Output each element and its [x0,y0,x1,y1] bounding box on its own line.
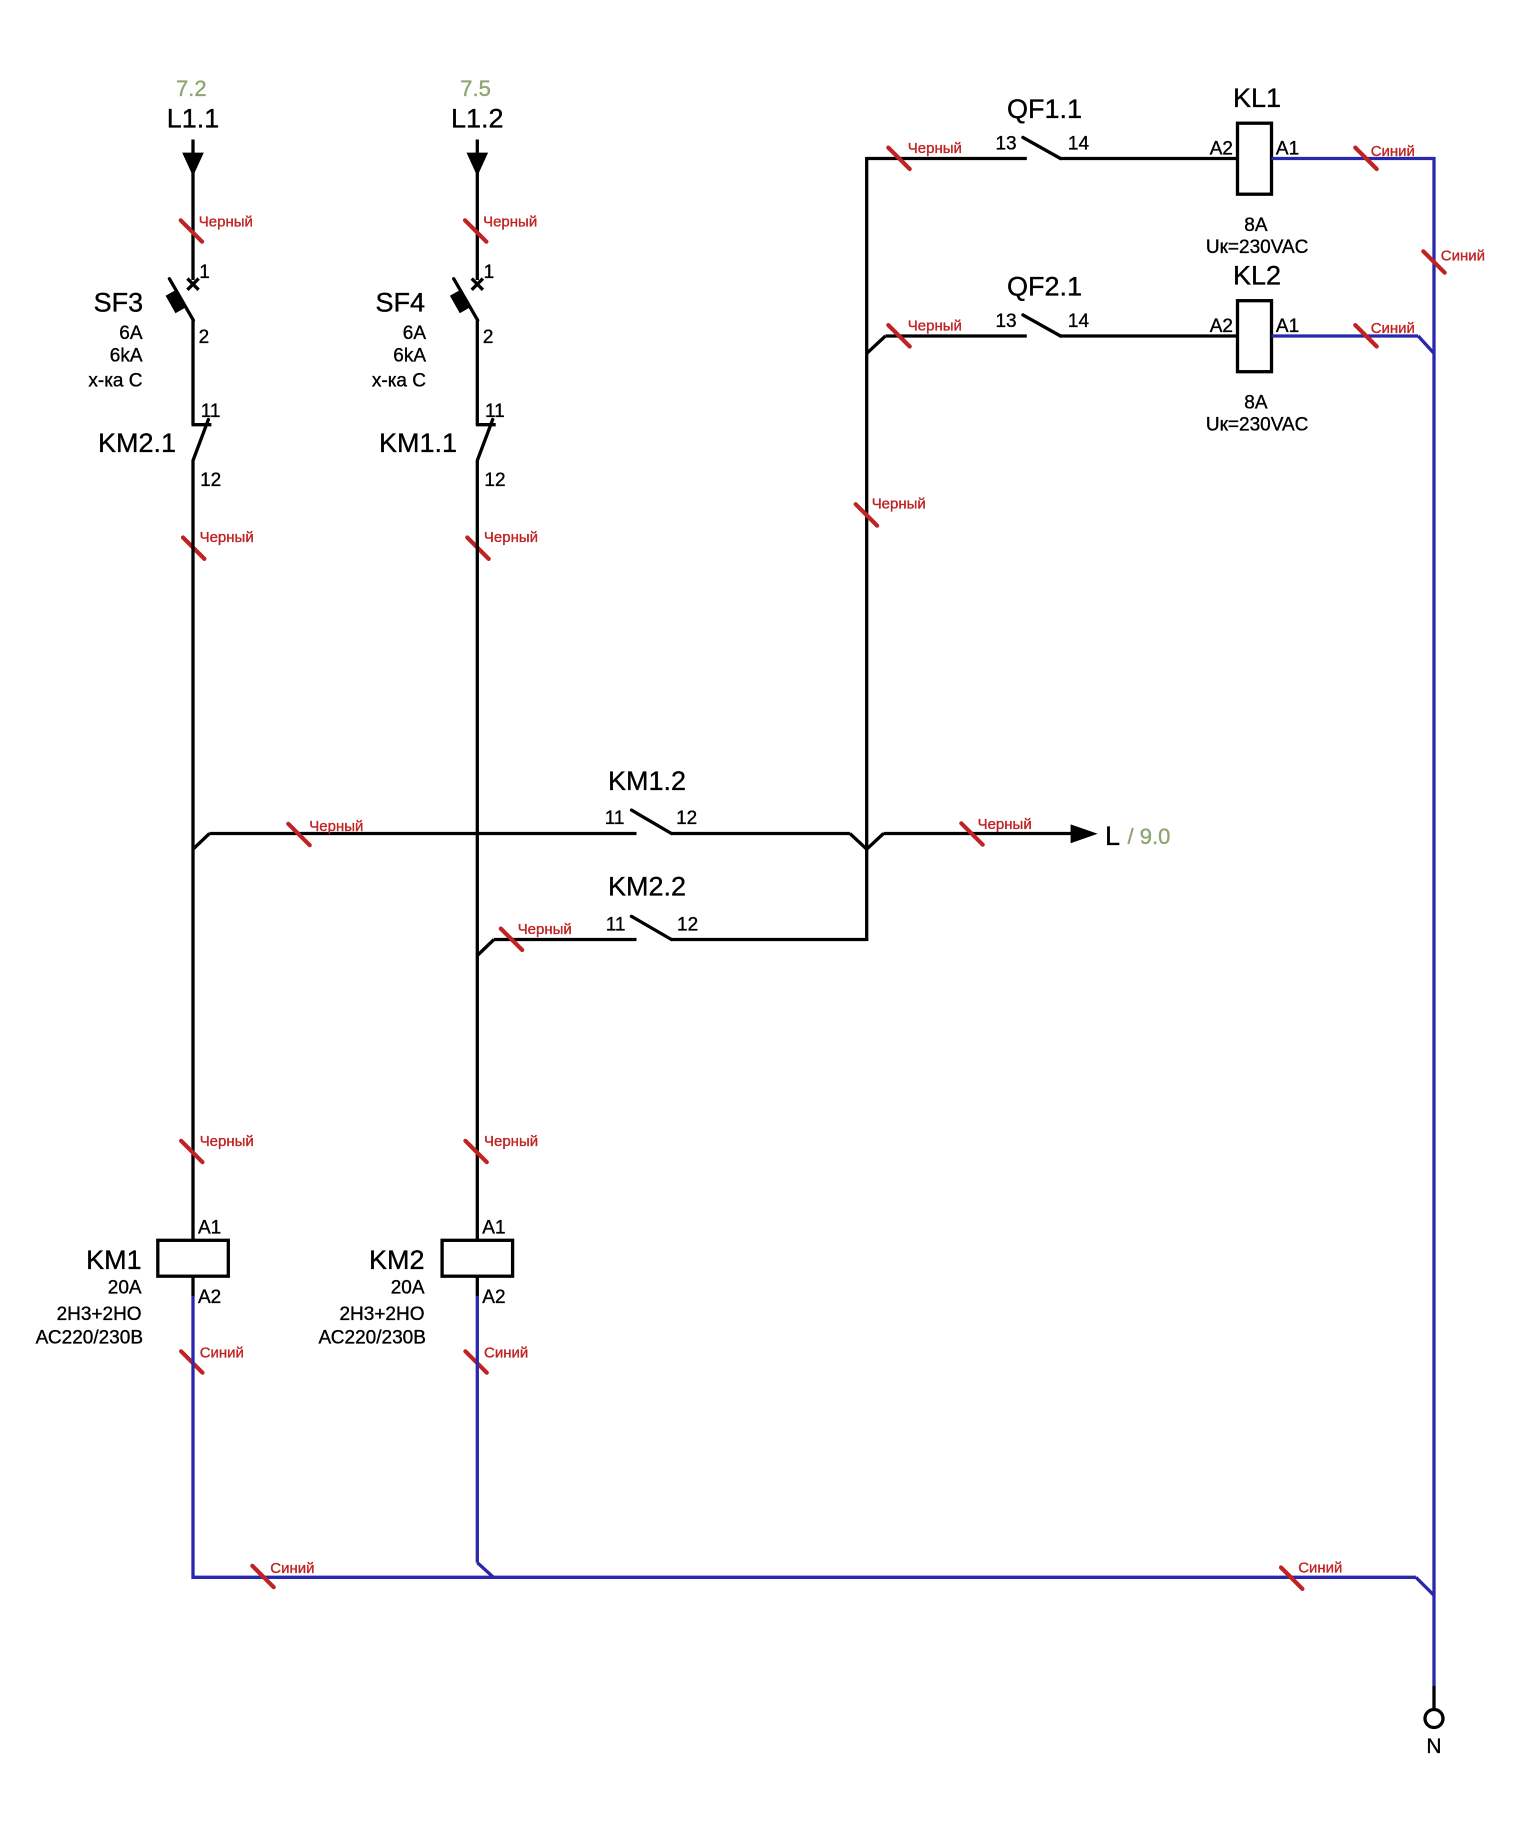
NC contact KM2.1 [192,420,212,461]
wire colour label Синий on right bus [1423,248,1485,273]
pin 12 of KM1.2 [676,808,697,829]
wire breaker to NC contact [476,320,479,424]
wire colour label Синий [181,1345,244,1373]
svg-text:KL2: KL2 [1233,261,1281,291]
svg-text:12: 12 [676,808,697,829]
svg-text:6kA: 6kA [110,346,143,367]
svg-text:11: 11 [201,401,221,422]
svg-text:A2: A2 [1210,139,1233,160]
contactor coil KM1 [158,1240,229,1276]
pin A1 of KM1 [198,1218,221,1239]
blue bus jog into right riser [1416,1577,1434,1595]
NO contact QF2.1 [1023,315,1061,336]
svg-text:/ 9.0: / 9.0 [1128,824,1171,849]
wire colour label Черный on riser [856,496,926,526]
pin 2 of SF3 [199,327,210,348]
value 20A of KM1 [108,1278,142,1299]
wire jog KM1.2 row into riser junction [850,834,867,850]
svg-text:8A: 8A [1244,393,1268,414]
svg-text:KM1.1: KM1.1 [379,428,457,458]
svg-text:A1: A1 [1276,139,1299,160]
black stub to N terminal [1432,1686,1435,1709]
svg-text:7.2: 7.2 [176,76,207,101]
svg-text:L1.2: L1.2 [451,104,504,134]
svg-text:Черный: Черный [518,921,572,938]
svg-text:Синий: Синий [1441,248,1485,265]
pin 11 of KM1.2 [605,808,625,829]
svg-text:АС220/230В: АС220/230В [36,1328,143,1349]
pin A1 of KM2 [482,1218,505,1239]
pin 11 of KM2.2 [606,915,626,936]
NO contact KM1.2 [632,810,672,833]
label QF1.1 [1007,94,1082,124]
relay coil KL1 [1238,123,1272,194]
svg-text:20A: 20A [108,1278,142,1299]
svg-text:2: 2 [199,327,210,348]
wire colour label Синий [465,1345,528,1373]
blue wire KM2 A2 down to N bus [477,1296,493,1577]
svg-text:Черный: Черный [872,496,926,513]
svg-text:A1: A1 [1276,316,1299,337]
svg-text:A2: A2 [198,1287,221,1308]
label SF4 [375,288,425,318]
wire colour label Черный [465,1133,538,1162]
svg-text:L1.1: L1.1 [167,104,220,134]
wire L1.1 down to breaker [191,171,194,280]
wire stub above arrow L1.2 [476,140,479,154]
circuit breaker SF4 blade and latch [450,279,478,321]
breaker SF3 fixed-contact cross [187,279,198,290]
blue wire KL1 A1 to right bus corner [1272,157,1436,160]
svg-text:QF1.1: QF1.1 [1007,94,1082,124]
wire colour label Черный [183,529,254,559]
svg-text:KM2.2: KM2.2 [608,872,686,902]
svg-text:Черный: Черный [199,213,253,230]
wire QF1.1 to coil KL1 [1061,157,1238,160]
wire jog riser junction to output row [867,834,884,850]
wire colour label Синий on N bus left [252,1560,314,1587]
value х-ка С of SF4 [372,371,426,392]
blue N bus horizontal [192,1576,1416,1579]
wire colour label Черный on output row [961,816,1031,845]
pin 12 of KM2.1 [200,470,221,491]
svg-text:KM2: KM2 [369,1245,425,1275]
svg-text:Черный: Черный [908,318,962,335]
svg-text:12: 12 [677,915,698,936]
wire KM1.2 row right segment [671,832,850,835]
label QF2.1 [1007,272,1082,302]
wire SF4/KM1.1 down to KM2 coil (junction at KM2.2 branch) [476,460,479,1240]
pin A2 of KL1 [1210,139,1233,160]
pin 14 of QF2.1 [1068,311,1090,332]
svg-text:Черный: Черный [483,213,537,230]
svg-text:2: 2 [483,327,494,348]
blue right bus vertical [1432,157,1435,1686]
wire jog riser to QF2.1 row [867,336,886,353]
wire KM2.2 row left segment [494,938,637,941]
svg-text:8A: 8A [1244,215,1268,236]
svg-text:6kA: 6kA [393,346,426,367]
NC contact KM1.1 [476,420,496,461]
wire colour label Черный [888,140,962,169]
svg-text:х-ка С: х-ка С [88,371,142,392]
svg-text:Черный: Черный [309,818,363,835]
svg-text:Черный: Черный [484,529,538,546]
value 6kA of SF3 [110,346,143,367]
wire KM1.2 row left segment [210,832,637,835]
svg-text:Синий: Синий [1371,143,1415,160]
wire vertical branch node (black riser) [865,157,868,941]
svg-text:11: 11 [485,401,505,422]
svg-text:L: L [1105,821,1120,851]
wire colour label Черный on KM2.2 row [501,921,572,950]
wire breaker to NC contact [191,320,194,424]
pin A2 of KM2 [482,1287,505,1308]
label KL1 [1233,83,1281,113]
value х-ка С of SF3 [88,371,142,392]
pin 13 of QF2.1 [995,311,1016,332]
pin A1 of KL1 [1276,139,1299,160]
value Uк=230VAC of KL1 [1206,237,1309,258]
label KM2.1 [98,428,176,458]
svg-text:1: 1 [199,262,210,283]
svg-text:KM1.2: KM1.2 [608,766,686,796]
svg-text:14: 14 [1068,134,1090,155]
value 8A of KL1 [1244,215,1268,236]
pin 2 of SF4 [483,327,494,348]
green cross-reference 7.5 [460,76,491,101]
wire stub below coil KM1 [191,1276,194,1296]
svg-text:A1: A1 [198,1218,221,1239]
incoming feed arrow L1.2 [467,153,489,177]
pin 13 of QF1.1 [995,134,1016,155]
value 20A of KM2 [391,1278,425,1299]
wire SF3/KM2.1 down to KM1 coil (junction at KM1.2 branch) [191,460,194,1240]
wire L1.2 down to breaker [476,171,479,280]
svg-text:Черный: Черный [978,816,1032,833]
svg-text:13: 13 [995,134,1016,155]
wire colour label Синий on N bus right [1281,1560,1342,1589]
wire stub above arrow L1.1 [191,140,194,154]
label KM1 [86,1245,142,1275]
pin A1 of KL2 [1276,316,1299,337]
wire colour label Черный [888,318,962,347]
svg-text:2Н3+2НО: 2Н3+2НО [339,1304,424,1325]
outgoing arrow to L [1071,824,1098,843]
value АС220/230В of KM1 [36,1328,143,1349]
wire jog from L1.1 column to KM1.2 row [193,834,210,850]
wire colour label Черный [467,529,538,559]
svg-text:2Н3+2НО: 2Н3+2НО [57,1304,142,1325]
wire stub below coil KM2 [476,1276,479,1296]
pin 14 of QF1.1 [1068,134,1090,155]
wire colour label Черный [181,1133,254,1162]
svg-text:Синий: Синий [1371,320,1415,337]
label KM2.2 [608,872,686,902]
svg-text:A2: A2 [1210,316,1233,337]
node L outgoing label [1105,821,1120,851]
svg-text:N: N [1426,1735,1441,1758]
label KM1.1 [379,428,457,458]
terminal label N [1426,1735,1441,1758]
pin A2 of KL2 [1210,316,1233,337]
svg-text:A1: A1 [482,1218,505,1239]
contactor coil KM2 [442,1240,512,1276]
pin 11 of KM2.1 [201,401,221,422]
svg-text:Uк=230VAC: Uк=230VAC [1206,415,1309,436]
svg-text:7.5: 7.5 [460,76,491,101]
label KL2 [1233,261,1281,291]
svg-text:12: 12 [484,470,505,491]
value 8A of KL2 [1244,393,1268,414]
svg-text:Черный: Черный [484,1133,538,1150]
svg-text:11: 11 [605,808,625,829]
svg-text:QF2.1: QF2.1 [1007,272,1082,302]
wire colour label Черный on KM1.2 row [288,818,363,845]
terminal N circle [1425,1710,1443,1728]
svg-text:Синий: Синий [270,1560,314,1577]
label SF3 [94,288,144,318]
svg-text:KL1: KL1 [1233,83,1281,113]
svg-text:14: 14 [1068,311,1090,332]
pin 11 of KM1.1 [485,401,505,422]
svg-text:KM1: KM1 [86,1245,142,1275]
pin 1 of SF3 [199,262,210,283]
wire jog from L1.2 column to KM2.2 row [477,940,494,956]
wire QF2.1 to coil KL2 [1061,334,1238,337]
svg-text:SF3: SF3 [94,288,144,318]
svg-text:20A: 20A [391,1278,425,1299]
value 6A of SF3 [119,323,143,344]
label KM1.2 [608,766,686,796]
wire colour label Черный [465,213,537,241]
value Uк=230VAC of KL2 [1206,415,1309,436]
wire colour label Синий on KL2 wire [1355,320,1415,346]
svg-text:KM2.1: KM2.1 [98,428,176,458]
incoming feed arrow L1.1 [182,153,204,177]
wire riser to QF1.1 [867,157,1027,160]
label KM2 [369,1245,425,1275]
svg-text:11: 11 [606,915,626,936]
svg-text:A2: A2 [482,1287,505,1308]
pin 1 of SF4 [484,262,495,283]
svg-text:6A: 6A [403,323,427,344]
green cross-reference 7.2 [176,76,207,101]
svg-text:Синий: Синий [484,1345,528,1362]
wire riser to QF2.1 [885,334,1026,337]
svg-text:АС220/230В: АС220/230В [319,1328,426,1349]
pin 12 of KM2.2 [677,915,698,936]
pin 12 of KM1.1 [484,470,505,491]
svg-text:Черный: Черный [200,1133,254,1150]
svg-text:Синий: Синий [200,1345,244,1362]
node L1.2 incoming feed label [451,104,504,134]
svg-text:х-ка С: х-ка С [372,371,426,392]
wire output row to arrow [884,832,1072,835]
relay coil KL2 [1238,301,1272,372]
svg-text:6A: 6A [119,323,143,344]
wire KM2.2 row right segment to riser corner [671,938,868,941]
blue wire KL2 A1 with jog to right bus [1272,336,1435,353]
blue wire KM1 A2 down to N bus [191,1296,194,1579]
svg-text:1: 1 [484,262,495,283]
value 2Н3+2НО of KM1 [57,1304,142,1325]
NO contact QF1.1 [1023,137,1061,158]
value 2Н3+2НО of KM2 [339,1304,424,1325]
wire colour label Синий on KL1 wire [1355,143,1415,169]
wire colour label Черный [181,213,253,241]
breaker SF4 fixed-contact cross [472,279,483,290]
svg-text:Черный: Черный [200,529,254,546]
svg-text:SF4: SF4 [375,288,425,318]
svg-text:12: 12 [200,470,221,491]
node L1.1 incoming feed label [167,104,220,134]
pin A2 of KM1 [198,1287,221,1308]
svg-text:Синий: Синий [1298,1560,1342,1577]
svg-text:13: 13 [995,311,1016,332]
value 6A of SF4 [403,323,427,344]
green cross-reference / 9.0 [1128,824,1171,849]
value АС220/230В of KM2 [319,1328,426,1349]
svg-text:Черный: Черный [908,140,962,157]
circuit breaker SF3 blade and latch [166,279,194,321]
svg-text:Uк=230VAC: Uк=230VAC [1206,237,1309,258]
value 6kA of SF4 [393,346,426,367]
NO contact KM2.2 [631,916,671,939]
